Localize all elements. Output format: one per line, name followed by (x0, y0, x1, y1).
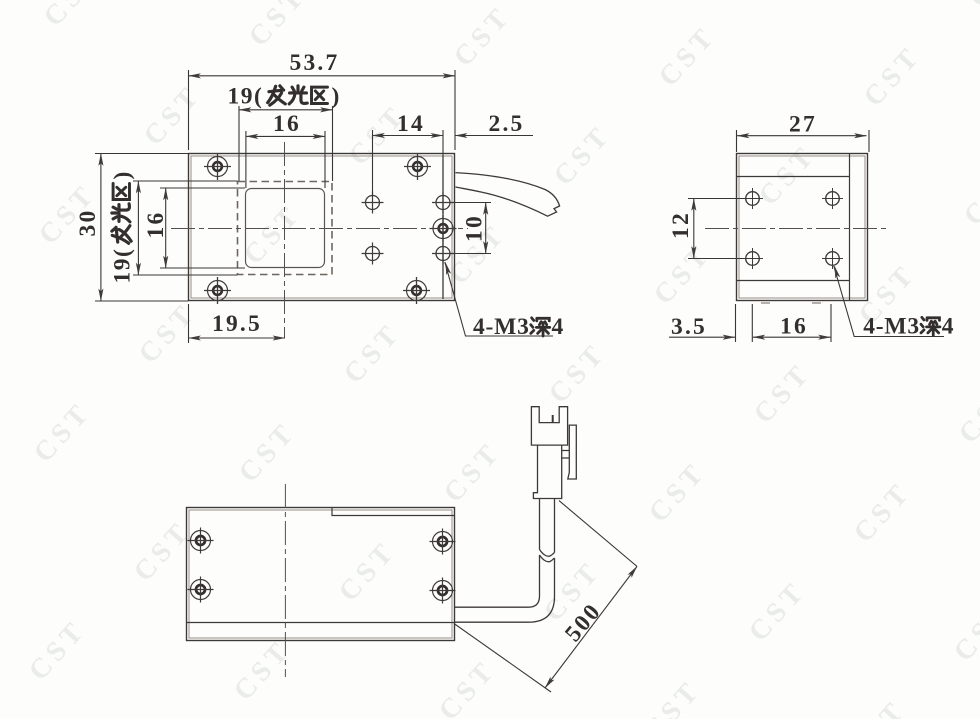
screw hole bottom-left (204, 277, 231, 304)
small hole left-bottom (362, 243, 384, 265)
svg-text:10: 10 (462, 214, 488, 242)
svg-text:CST: CST (643, 456, 713, 528)
dim 16 vertical (165, 188, 167, 268)
cable stub top view (456, 173, 560, 217)
dim 2.5 leader (455, 135, 533, 137)
svg-text:CST: CST (848, 476, 918, 548)
dim 500 (454, 501, 637, 692)
svg-text:30: 30 (75, 209, 101, 237)
connector body (533, 445, 561, 498)
connector head (531, 407, 567, 445)
ext lines 19 fgq (239, 106, 333, 181)
ext lines 12 (688, 199, 745, 259)
leader 4-M3 right (834, 266, 944, 337)
ext lines 19 fgq vertical (133, 181, 238, 275)
svg-text:CST: CST (133, 297, 203, 369)
svg-text:14: 14 (397, 111, 425, 137)
svg-text:CST: CST (233, 416, 303, 488)
hole top-right (430, 529, 456, 555)
svg-text:CST: CST (548, 119, 618, 191)
text 4-M3深4 right (863, 314, 954, 340)
leader 4-M3 left (445, 262, 553, 336)
svg-text:CST: CST (433, 654, 503, 719)
cable vertical lower + bend (455, 555, 555, 622)
ext lines bottom (736, 304, 832, 342)
screw hole bottom-right (403, 277, 430, 304)
screw hole top-left (204, 153, 231, 180)
svg-text:CST: CST (0, 59, 2, 131)
ext lines 16 vertical (160, 188, 245, 268)
dim 53.7 (189, 75, 456, 77)
svg-text:CST: CST (38, 0, 108, 32)
svg-text:CST: CST (843, 694, 913, 719)
svg-text:CST: CST (653, 20, 723, 92)
svg-text:CST: CST (438, 436, 508, 508)
center tapped hole right (430, 215, 457, 242)
centerline horizontal (705, 228, 889, 230)
ext lines 30 (95, 154, 189, 302)
hole top-left (742, 188, 763, 209)
edge nicks bottom (761, 302, 821, 304)
svg-text:CST: CST (948, 595, 980, 667)
svg-text:12: 12 (668, 211, 694, 239)
dim line 500 (545, 566, 637, 688)
dim 19 fgq (239, 109, 333, 111)
plate edge line (442, 156, 444, 299)
ext line from connector (559, 501, 637, 567)
connector latch (562, 425, 577, 479)
svg-text:CST: CST (243, 0, 313, 52)
small hole right-bottom (432, 243, 454, 265)
svg-text:CST: CST (338, 317, 408, 389)
svg-text:2.5: 2.5 (489, 111, 525, 137)
svg-text:16: 16 (143, 211, 169, 239)
svg-text:CST: CST (963, 0, 980, 13)
body outline (187, 508, 455, 641)
svg-text:16: 16 (780, 314, 808, 340)
svg-text:CST: CST (858, 40, 928, 112)
ext lines 16 top (246, 131, 325, 188)
dim 19 fgq vertical (137, 181, 139, 275)
bottom inner line (187, 622, 455, 624)
ext lines 14 (373, 130, 444, 196)
vertical centerline (284, 484, 286, 677)
luminous window inner rounded rect (246, 189, 325, 268)
svg-text:CST: CST (138, 79, 208, 151)
ext lines 27 (737, 130, 870, 152)
svg-text:CST: CST (448, 0, 518, 72)
svg-text:CST: CST (953, 377, 980, 449)
hole bottom-right (430, 578, 456, 604)
text 19(fgq) vertical (110, 172, 136, 284)
svg-text:CST: CST (333, 535, 403, 607)
body inner offset (189, 510, 452, 638)
inner horizontal line bottom (736, 280, 850, 282)
svg-text:3.5: 3.5 (671, 314, 707, 340)
svg-text:CST: CST (543, 337, 613, 409)
svg-text:CST: CST (753, 139, 823, 211)
vertical centerline (284, 142, 286, 338)
svg-text:CST: CST (743, 575, 813, 647)
ext lines 53.7 (189, 70, 456, 150)
svg-text:19.5: 19.5 (212, 311, 262, 337)
luminous window dashed rect (238, 182, 333, 275)
body inner offset line (191, 156, 452, 298)
hole top-left (188, 528, 214, 554)
small hole left-top (362, 192, 384, 214)
dim texts top view (75, 50, 564, 340)
inner horizontal line top (736, 176, 850, 178)
ext lines 10 (451, 203, 492, 254)
svg-text:CST: CST (638, 674, 708, 719)
dim 16 top (246, 135, 325, 137)
body inner offset (739, 156, 865, 298)
svg-text:27: 27 (789, 112, 817, 138)
cable break squiggle (540, 550, 555, 562)
body outline (737, 154, 868, 301)
dim 12 (693, 199, 695, 259)
dim 27 (737, 135, 867, 137)
screw hole top-right (404, 153, 431, 180)
hole bottom-left (188, 577, 214, 603)
right view dimensions (669, 130, 944, 342)
dim 14 (373, 135, 444, 137)
dim 19.5 (189, 337, 286, 339)
svg-text:CST: CST (238, 198, 308, 270)
horizontal centerline (171, 228, 468, 230)
dim 10 (485, 203, 487, 254)
hole bottom-left (742, 248, 763, 269)
svg-text:CST: CST (28, 396, 98, 468)
connector pin (552, 415, 554, 423)
svg-text:CST: CST (228, 634, 298, 706)
text 4-M3深4 left (473, 314, 564, 340)
ext line from body corner (454, 624, 551, 693)
inner vertical flange line (849, 154, 851, 301)
body outline (189, 154, 455, 301)
dim 16 bottom (753, 336, 831, 338)
svg-text:CST: CST (648, 238, 718, 310)
ext lines 19.5 (188, 304, 190, 343)
dim 30 (100, 154, 102, 302)
top step line (332, 508, 455, 516)
svg-text:CST: CST (23, 614, 93, 686)
text 19(fgq) top (228, 84, 340, 110)
svg-text:53.7: 53.7 (290, 50, 340, 76)
svg-text:16: 16 (273, 111, 301, 137)
svg-text:CST: CST (958, 159, 980, 231)
hole top-right (822, 188, 843, 209)
hole bottom-right (822, 248, 843, 269)
svg-text:CST: CST (748, 357, 818, 429)
cable vertical upper (540, 499, 555, 553)
small hole right-top (432, 192, 454, 214)
dim 3.5 leader (669, 336, 735, 338)
